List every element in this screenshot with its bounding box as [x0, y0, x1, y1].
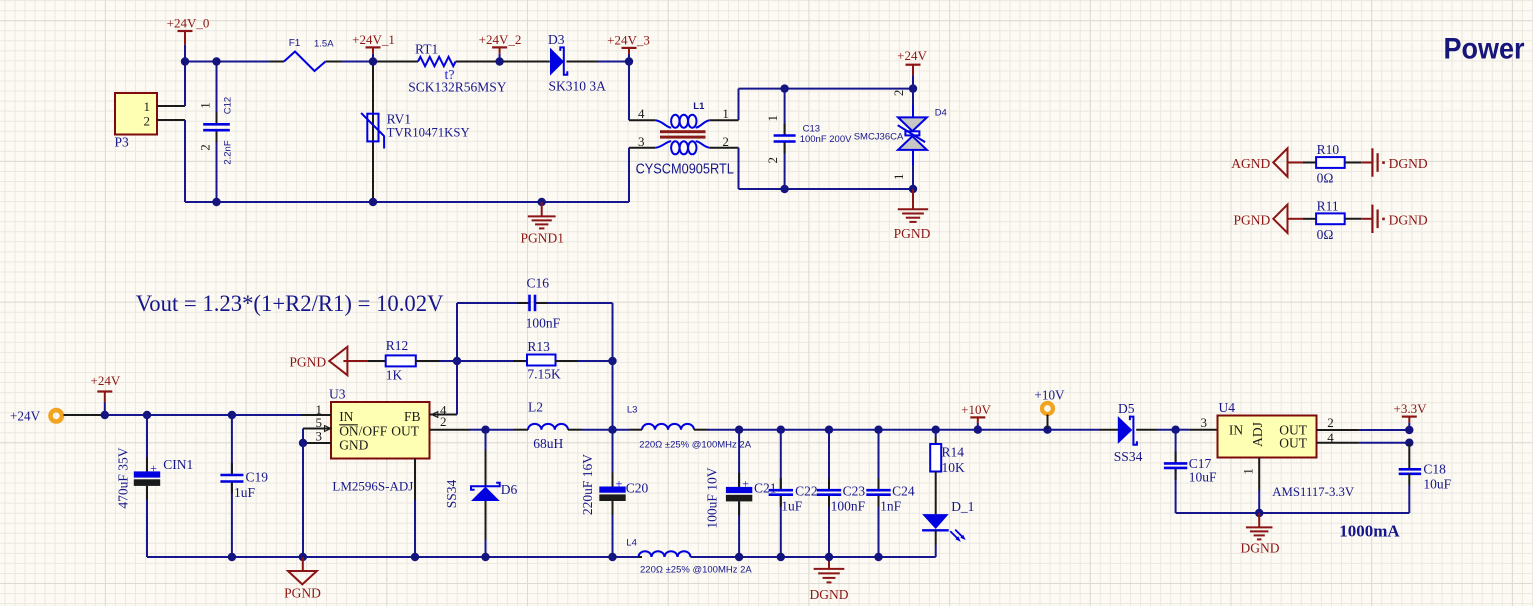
svg-text:F1: F1	[289, 38, 301, 49]
svg-text:1K: 1K	[386, 368, 403, 383]
svg-text:DGND: DGND	[1389, 212, 1428, 227]
svg-text:C18: C18	[1423, 462, 1446, 477]
svg-text:1: 1	[1241, 468, 1256, 475]
svg-text:4: 4	[1327, 430, 1334, 445]
svg-text:3: 3	[638, 134, 645, 149]
svg-text:220Ω ±25% @100MHz 2A: 220Ω ±25% @100MHz 2A	[640, 565, 752, 576]
svg-text:68uH: 68uH	[533, 436, 563, 451]
svg-text:C20: C20	[626, 481, 649, 496]
svg-text:SS34: SS34	[1114, 449, 1143, 464]
svg-text:1: 1	[891, 173, 906, 180]
svg-text:+10V: +10V	[961, 402, 991, 417]
svg-text:C21: C21	[754, 481, 777, 496]
svg-text:+24V: +24V	[897, 48, 927, 63]
svg-text:DGND: DGND	[810, 587, 849, 602]
svg-text:TVR10471KSY: TVR10471KSY	[387, 126, 470, 140]
svg-text:CIN1: CIN1	[163, 457, 193, 472]
svg-text:1000mA: 1000mA	[1339, 522, 1400, 541]
svg-text:2: 2	[198, 144, 213, 151]
svg-text:FB: FB	[404, 409, 421, 424]
svg-text:ON/OFF: ON/OFF	[339, 423, 388, 438]
svg-text:1: 1	[765, 115, 780, 122]
svg-text:100nF 200V: 100nF 200V	[800, 134, 852, 145]
svg-text:AGND: AGND	[1231, 156, 1270, 171]
svg-text:OUT: OUT	[391, 423, 419, 438]
svg-text:3: 3	[1201, 415, 1208, 430]
svg-text:D_1: D_1	[951, 499, 974, 514]
svg-text:ADJ: ADJ	[1250, 422, 1265, 447]
svg-text:+24V_2: +24V_2	[479, 32, 522, 47]
svg-text:PGND: PGND	[284, 586, 321, 601]
svg-text:1: 1	[198, 102, 213, 109]
svg-text:R10: R10	[1317, 142, 1340, 157]
svg-text:1.5A: 1.5A	[314, 39, 334, 50]
svg-text:+: +	[150, 461, 157, 475]
svg-text:SS34: SS34	[444, 479, 459, 508]
svg-text:PGND: PGND	[1234, 212, 1271, 227]
svg-text:100nF: 100nF	[831, 499, 866, 514]
svg-text:1uF: 1uF	[781, 499, 803, 514]
svg-text:P3: P3	[115, 135, 130, 150]
svg-text:PGND: PGND	[894, 226, 931, 241]
svg-text:R12: R12	[386, 338, 409, 353]
svg-text:PGND1: PGND1	[521, 231, 565, 246]
svg-text:2: 2	[144, 113, 151, 128]
svg-text:RT1: RT1	[415, 42, 438, 57]
svg-text:C19: C19	[246, 470, 269, 485]
svg-text:+24V: +24V	[91, 373, 121, 388]
svg-text:U4: U4	[1219, 400, 1236, 415]
svg-text:470uF 35V: 470uF 35V	[116, 447, 131, 508]
svg-text:1nF: 1nF	[880, 499, 902, 514]
svg-text:D5: D5	[1118, 401, 1135, 416]
svg-text:GND: GND	[339, 438, 368, 453]
svg-text:LM2596S-ADJ: LM2596S-ADJ	[332, 479, 413, 494]
svg-text:PGND: PGND	[289, 355, 326, 370]
svg-text:100uF 10V: 100uF 10V	[705, 467, 720, 528]
svg-text:2: 2	[765, 157, 780, 164]
svg-text:+24V_3: +24V_3	[607, 32, 650, 47]
svg-text:L2: L2	[528, 400, 543, 415]
svg-text:1: 1	[722, 106, 729, 121]
svg-text:Vout = 1.23*(1+R2/R1) = 10.02V: Vout = 1.23*(1+R2/R1) = 10.02V	[136, 291, 444, 316]
svg-text:+: +	[616, 476, 623, 490]
svg-text:10uF: 10uF	[1189, 470, 1217, 485]
svg-text:2: 2	[722, 134, 729, 149]
svg-text:IN: IN	[339, 409, 353, 424]
svg-text:3: 3	[316, 429, 323, 444]
svg-text:C23: C23	[843, 484, 866, 499]
svg-text:+3.3V: +3.3V	[1394, 401, 1428, 416]
svg-text:L3: L3	[627, 405, 638, 416]
svg-text:+24V: +24V	[10, 408, 41, 423]
svg-text:C12: C12	[223, 97, 234, 114]
svg-text:2.2nF: 2.2nF	[223, 140, 234, 164]
svg-text:D3: D3	[548, 32, 565, 47]
svg-text:220Ω ±25% @100MHz 2A: 220Ω ±25% @100MHz 2A	[639, 440, 751, 451]
svg-text:+24V_1: +24V_1	[352, 32, 395, 47]
svg-text:CYSCM0905RTL: CYSCM0905RTL	[636, 161, 735, 177]
svg-text:R11: R11	[1317, 198, 1339, 213]
svg-text:L4: L4	[626, 538, 637, 549]
svg-text:DGND: DGND	[1241, 541, 1280, 556]
svg-text:AMS1117-3.3V: AMS1117-3.3V	[1272, 485, 1355, 499]
svg-text:U3: U3	[329, 387, 346, 402]
svg-text:IN: IN	[1229, 423, 1243, 438]
svg-text:R13: R13	[527, 339, 550, 354]
svg-text:C24: C24	[892, 484, 915, 499]
svg-text:+10V: +10V	[1034, 388, 1065, 403]
svg-text:+: +	[742, 477, 749, 491]
svg-text:RV1: RV1	[387, 112, 411, 127]
svg-text:SMCJ36CA: SMCJ36CA	[854, 132, 904, 143]
svg-text:0Ω: 0Ω	[1317, 227, 1334, 242]
svg-text:10K: 10K	[942, 460, 966, 475]
svg-text:Power: Power	[1444, 32, 1525, 66]
svg-text:D4: D4	[935, 108, 947, 119]
svg-text:5: 5	[316, 415, 323, 430]
svg-text:100nF: 100nF	[526, 316, 561, 331]
svg-text:+24V_0: +24V_0	[167, 16, 210, 31]
svg-text:C22: C22	[795, 484, 818, 499]
svg-text:10uF: 10uF	[1423, 477, 1451, 492]
svg-text:C13: C13	[803, 123, 820, 134]
svg-text:0Ω: 0Ω	[1317, 171, 1334, 186]
svg-text:2: 2	[891, 90, 906, 97]
svg-text:2: 2	[1327, 415, 1334, 430]
svg-text:220uF 16V: 220uF 16V	[580, 454, 595, 515]
svg-text:D6: D6	[501, 482, 518, 497]
svg-text:7.15K: 7.15K	[527, 367, 561, 382]
svg-text:OUT: OUT	[1279, 436, 1307, 451]
svg-text:R14: R14	[942, 445, 965, 460]
svg-text:1uF: 1uF	[234, 485, 256, 500]
svg-text:SK310 3A: SK310 3A	[549, 79, 607, 94]
svg-text:C16: C16	[527, 276, 550, 291]
svg-text:4: 4	[638, 106, 645, 121]
svg-text:L1: L1	[693, 101, 705, 112]
svg-text:1: 1	[144, 99, 151, 114]
svg-text:2: 2	[440, 414, 447, 429]
svg-text:SCK132R56MSY: SCK132R56MSY	[408, 80, 507, 95]
svg-text:DGND: DGND	[1389, 156, 1428, 171]
